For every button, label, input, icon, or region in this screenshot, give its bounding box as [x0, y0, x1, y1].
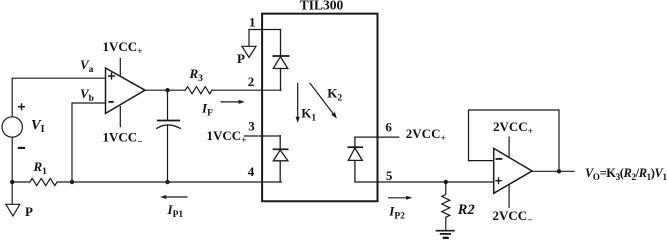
svg-text:P: P [237, 51, 245, 66]
svg-text:4: 4 [248, 164, 255, 179]
svg-text:IP2: IP2 [388, 203, 405, 221]
svg-text:TIL300: TIL300 [300, 0, 344, 12]
svg-text:R1: R1 [33, 159, 48, 177]
ground P at input side [6, 182, 20, 216]
svg-text:Vb: Vb [80, 86, 94, 104]
resistor R3 [185, 87, 211, 94]
svg-text:P: P [25, 204, 33, 219]
resistor R1 [12, 178, 57, 185]
svg-text:2VCC−: 2VCC− [493, 208, 533, 226]
svg-text:2VCC+: 2VCC+ [406, 126, 446, 144]
junction dot R2 node [444, 180, 448, 184]
op-amp U2 [494, 148, 532, 193]
svg-text:R3: R3 [189, 66, 204, 84]
op-amp U1 [106, 68, 146, 113]
junction dot U1 output [165, 88, 169, 92]
photodiode D2 between pin 3 and pin 4 [273, 136, 288, 182]
wire R3 to pin 2 [212, 89, 281, 91]
pin 6 wire [356, 136, 399, 138]
svg-text:6: 6 [385, 120, 392, 135]
feedback wire around U2 [469, 110, 560, 171]
svg-text:IF: IF [201, 100, 213, 118]
pin 1 wire [249, 29, 281, 31]
wire node Vb branch to op-amp U1 inverting input [72, 103, 106, 182]
current arrow IP1 [165, 196, 187, 198]
coupling arrow K2 [310, 83, 334, 114]
current arrow IF [221, 101, 240, 103]
wire bottom rail from R1 to pin 4 of TIL300 [57, 181, 281, 183]
junction dot capacitor bottom [165, 180, 169, 184]
svg-text:R2: R2 [457, 202, 475, 218]
svg-text:1VCC+: 1VCC+ [103, 39, 143, 57]
svg-text:IP1: IP1 [167, 202, 184, 220]
svg-text:2: 2 [248, 74, 255, 89]
svg-text:1VCC+: 1VCC+ [207, 128, 247, 146]
current arrow IP2 [389, 197, 408, 199]
svg-text:K1: K1 [301, 106, 316, 124]
TIL300 box [262, 14, 377, 202]
power 2VCC+ of U2 [508, 137, 510, 157]
wire node Va from source top to op-amp U1 non-inverting input [12, 78, 105, 117]
photodiode D3 between pin 6 and pin 5 [348, 137, 362, 182]
svg-text:5: 5 [386, 168, 393, 183]
LED D1 between pin 1 and pin 2 [273, 30, 288, 91]
capacitor C1 [167, 90, 169, 182]
wire source bottom to ground node [11, 137, 13, 182]
voltage source V1 [2, 117, 22, 137]
junction dot node Vb branch [70, 180, 74, 184]
svg-text:2VCC+: 2VCC+ [493, 119, 533, 137]
ground P at pin 1 [242, 30, 256, 58]
svg-text:VO=K3(R2/R1)V1: VO=K3(R2/R1)V1 [585, 166, 667, 182]
svg-text:3: 3 [248, 119, 255, 134]
power 1VCC- of U1 [119, 107, 121, 127]
power 1VCC+ of U1 [119, 58, 121, 75]
svg-text:VI: VI [31, 117, 45, 135]
earth ground under R2 [436, 230, 455, 232]
wire U2 output [532, 170, 574, 172]
wire U2 inverting input [469, 160, 494, 162]
svg-text:Va: Va [80, 57, 94, 75]
junction dot at source/R1/ground node [10, 180, 14, 184]
wire U1 output to R3 [145, 89, 185, 91]
power 2VCC- of U2 [508, 185, 510, 208]
junction dot U2 output [557, 169, 561, 173]
resistor R2 [442, 182, 450, 231]
pin 3 wire [245, 135, 281, 137]
svg-text:1VCC−: 1VCC− [103, 130, 143, 148]
svg-text:1: 1 [249, 14, 256, 29]
pin 5 wire to op-amp U2 non-inverting input [356, 181, 494, 183]
svg-text:K2: K2 [327, 85, 342, 103]
coupling arrow K1 [297, 83, 299, 117]
